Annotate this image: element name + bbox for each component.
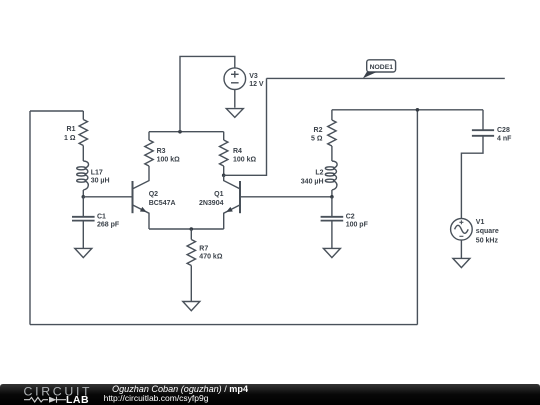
label C28 value <box>497 127 512 143</box>
wire rail R2-C28 <box>332 109 483 111</box>
wire rail R3-R4 <box>149 131 224 133</box>
label L2 value <box>301 170 324 186</box>
label R7 value <box>199 246 223 261</box>
label C1 value <box>97 213 120 228</box>
label V3 value <box>249 73 264 88</box>
svg-text:R1: R1 <box>67 126 76 133</box>
node junction dot emitter/R7 <box>190 227 194 231</box>
svg-text:V1: V1 <box>476 219 485 226</box>
svg-text:4 nF: 4 nF <box>497 136 512 143</box>
label L17 value <box>91 169 110 184</box>
label Q2 value <box>149 191 176 207</box>
svg-text:1 Ω: 1 Ω <box>64 135 76 142</box>
svg-text:http://circuitlab.com/csyfp9g: http://circuitlab.com/csyfp9g <box>104 393 209 403</box>
transistor Q2 <box>133 166 150 229</box>
voltage source V3 <box>180 56 246 131</box>
svg-text:100 kΩ: 100 kΩ <box>157 156 181 163</box>
svg-text:C1: C1 <box>97 213 106 220</box>
wire right vertical of outer loop <box>416 110 418 325</box>
wire NODE1 to Q1 collector <box>224 78 267 175</box>
svg-text:12 V: 12 V <box>249 81 264 88</box>
svg-text:C28: C28 <box>497 127 510 134</box>
label R4 value <box>233 148 257 163</box>
svg-text:100 pF: 100 pF <box>346 221 369 228</box>
svg-text:square: square <box>476 228 499 235</box>
transistor Q1 <box>224 175 240 229</box>
wire Q2 base <box>83 196 132 198</box>
wire NODE1 rail <box>267 77 505 79</box>
ground below R7 <box>183 302 200 311</box>
svg-text:268 pF: 268 pF <box>97 221 120 228</box>
ground below V1 <box>453 258 470 267</box>
svg-text:30 µH: 30 µH <box>91 178 110 185</box>
label R1 value <box>64 126 76 142</box>
voltage source V1 <box>451 219 473 259</box>
svg-text:L2: L2 <box>315 170 323 177</box>
wire bottom of outer loop <box>30 324 417 326</box>
svg-text:470 kΩ: 470 kΩ <box>199 253 223 260</box>
resistor R3 <box>145 132 153 166</box>
svg-text:C2: C2 <box>346 213 355 220</box>
resistor R2 <box>328 110 336 161</box>
node junction dot L2/C2/Q1-base <box>330 195 334 199</box>
label R2 value <box>311 127 323 143</box>
label V1 value <box>476 219 499 245</box>
capacitor C28 <box>461 110 494 219</box>
svg-text:BC547A: BC547A <box>149 200 176 207</box>
inductor L2 <box>325 161 337 197</box>
label R3 value <box>157 148 181 163</box>
svg-text:Q1: Q1 <box>214 191 223 198</box>
resistor R7 <box>187 229 195 302</box>
svg-text:L17: L17 <box>91 169 103 176</box>
resistor R4 <box>220 132 228 176</box>
node junction dot loop/rail <box>416 108 420 112</box>
wire left vertical of outer loop <box>29 111 31 325</box>
wire emitter rail <box>149 228 224 230</box>
label C2 value <box>346 213 369 228</box>
svg-text:100 kΩ: 100 kΩ <box>233 156 257 163</box>
svg-text:LAB: LAB <box>66 394 89 405</box>
label Q1 value <box>199 191 224 207</box>
capacitor C2 <box>321 197 344 249</box>
svg-text:R2: R2 <box>314 127 323 134</box>
node junction dot V3 rail <box>178 130 182 134</box>
inductor L17 <box>77 161 89 197</box>
resistor R1 <box>79 111 87 161</box>
svg-text:340 µH: 340 µH <box>301 178 324 185</box>
node junction dot R4/Q1 collector <box>222 174 226 178</box>
node junction dot L17/C1/Q2-base <box>82 195 86 199</box>
capacitor C1 <box>72 197 95 249</box>
svg-text:2N3904: 2N3904 <box>199 200 224 207</box>
svg-text:R3: R3 <box>157 148 166 155</box>
svg-text:5 Ω: 5 Ω <box>311 136 323 143</box>
svg-text:V3: V3 <box>249 73 258 80</box>
wire Q1 base <box>240 196 332 198</box>
ground below C2 <box>323 248 340 257</box>
svg-text:Q2: Q2 <box>149 191 158 198</box>
node flag NODE1 <box>363 60 396 79</box>
ground below V3 <box>226 109 243 118</box>
svg-text:NODE1: NODE1 <box>370 64 394 71</box>
svg-text:50 kHz: 50 kHz <box>476 237 499 244</box>
footer bar <box>0 384 540 405</box>
footer logo resistor-diode glyph <box>24 397 66 403</box>
wire top-left from loop to R1 <box>30 110 83 112</box>
svg-text:R7: R7 <box>199 246 208 253</box>
ground below C1 <box>75 248 92 257</box>
svg-text:R4: R4 <box>233 148 242 155</box>
